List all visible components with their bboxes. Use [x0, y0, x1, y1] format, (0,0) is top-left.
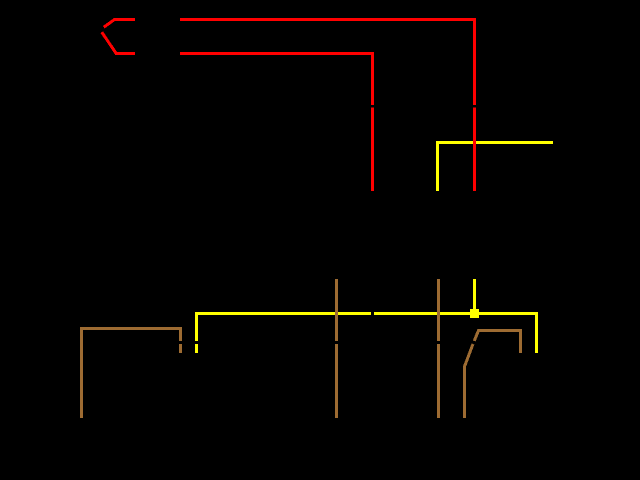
wire: yellow branch (top right), horizontal then down to component pin — [438, 143, 554, 192]
wire: brown vertical 1 upper part (from component) — [335, 279, 338, 341]
wire: red feed A below inline connector — [473, 108, 476, 192]
connector plug symbol (red, open arrow at top left), upper half — [104, 20, 135, 28]
wire: red feed B below inline connector — [371, 108, 374, 192]
wire: brown vertical 1 lower part — [335, 344, 338, 418]
wire: brown vertical 2 upper part (from component) — [437, 279, 440, 341]
wire: red feed B horizontal and down at x=372 — [180, 54, 373, 106]
wire: yellow drop from component to junction — [473, 279, 476, 314]
wire: yellow bus left segment with corner down to connector pin — [197, 314, 372, 342]
wire: red feed A horizontal top and down right side — [180, 20, 475, 106]
connector pin stub: yellow below inline connector at x=196 — [195, 344, 198, 353]
wire: brown curve bottom right, lower part (diagonal then down) — [465, 344, 474, 418]
wire: brown vertical 2 lower part — [437, 344, 440, 418]
junction: solid yellow square at bus tap (474,313) — [470, 309, 479, 318]
connector plug symbol lower half — [102, 32, 135, 53]
connector pin stub: brown below inline connector at x=180 — [179, 344, 182, 353]
wire: brown curve bottom right, upper part (hook over to x=520) — [474, 331, 520, 354]
wire: brown L-shape bottom left — [82, 329, 181, 419]
wire: yellow bus right segment with corner down at x=536 — [374, 314, 537, 354]
